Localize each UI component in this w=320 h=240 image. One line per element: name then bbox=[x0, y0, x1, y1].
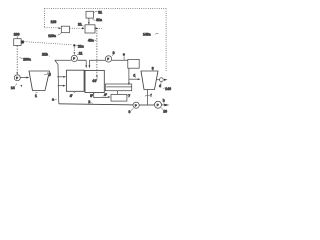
bottom pipe bbox=[59, 104, 133, 105]
svg-text:d: d bbox=[133, 73, 135, 77]
svg-text:200: 200 bbox=[14, 33, 20, 37]
slant feed wire bbox=[55, 60, 59, 104]
svg-text:7: 7 bbox=[128, 94, 130, 98]
svg-text:146: 146 bbox=[165, 87, 171, 91]
svg-text:P: P bbox=[135, 104, 137, 108]
pipe from drop2 to pump 8 bbox=[89, 59, 105, 61]
outlet arrow h bbox=[162, 104, 165, 106]
svg-text:6': 6' bbox=[104, 93, 107, 97]
branch arrow 2 into vessel 2 bbox=[58, 85, 63, 87]
svg-text:43a: 43a bbox=[88, 39, 94, 43]
main pipe mid segment bbox=[77, 59, 86, 61]
svg-text:31: 31 bbox=[98, 10, 102, 14]
pump 10 bbox=[155, 101, 162, 108]
pump 11 circle bbox=[71, 55, 77, 61]
svg-text:2: 2 bbox=[88, 100, 90, 104]
wire dashed node to pump 11 bbox=[73, 47, 75, 52]
pipe pump8 to box B1 bbox=[112, 59, 128, 61]
dotted enclosure right side 148a bbox=[165, 9, 167, 72]
svg-text:e: e bbox=[123, 52, 125, 56]
svg-text:f: f bbox=[151, 94, 152, 98]
box 200 bbox=[14, 39, 21, 46]
wire dotted into box 126a bbox=[45, 27, 59, 29]
svg-text:21b: 21b bbox=[42, 52, 48, 56]
outlet valve on vessel 3 bbox=[157, 79, 160, 81]
pipe pump9 to pump10 bbox=[139, 104, 154, 106]
svg-text:148a: 148a bbox=[143, 33, 151, 37]
svg-text:21a: 21a bbox=[78, 44, 84, 48]
svg-text:200a: 200a bbox=[23, 57, 31, 61]
wire pump14 to vessel 1 bbox=[20, 77, 26, 79]
vessel 3' right tank bbox=[85, 70, 104, 92]
node 21a bbox=[73, 44, 75, 46]
svg-text:a: a bbox=[52, 98, 54, 102]
svg-text:4': 4' bbox=[70, 94, 73, 98]
main pipe left segment bbox=[55, 59, 71, 61]
svg-text:126a: 126a bbox=[48, 34, 56, 38]
svg-text:43': 43' bbox=[92, 79, 97, 83]
svg-text:d: d bbox=[159, 84, 161, 88]
wire dashed 200 down to valve 14 bbox=[16, 46, 18, 73]
wire arrow out of box 21 bbox=[96, 27, 99, 29]
condenser bar bbox=[105, 84, 131, 91]
stub bar to box 7 bbox=[116, 91, 118, 95]
wire dotted 126a to 21 bbox=[70, 27, 82, 29]
svg-text:5': 5' bbox=[90, 94, 93, 98]
pump 9 bbox=[133, 102, 139, 108]
pump 8 circle bbox=[105, 56, 111, 62]
svg-text:31a: 31a bbox=[96, 18, 102, 22]
svg-text:10: 10 bbox=[163, 110, 167, 114]
drain mark under pump 14 bbox=[21, 85, 23, 87]
svg-text:1: 1 bbox=[35, 94, 37, 98]
wire B1 drain down bbox=[128, 68, 130, 83]
drop arrow 1 into vessel bbox=[85, 60, 87, 65]
svg-text:14: 14 bbox=[11, 86, 15, 90]
box heater bbox=[128, 59, 139, 68]
branch arrow 1 into vessel 2 bbox=[57, 76, 63, 78]
drop arrow 2 bbox=[88, 60, 90, 65]
vessel 2 left tank bbox=[66, 70, 84, 91]
svg-text:9: 9 bbox=[129, 110, 131, 114]
wire vessel3 outlet down bbox=[147, 90, 149, 105]
svg-text:P: P bbox=[107, 57, 109, 61]
svg-text:P: P bbox=[16, 76, 18, 80]
dotted enclosure left side bbox=[44, 9, 46, 28]
dotted enclosure top side bbox=[45, 8, 167, 10]
box 126a bbox=[61, 26, 69, 33]
svg-text:8: 8 bbox=[113, 51, 115, 55]
svg-text:P: P bbox=[157, 103, 159, 107]
pump 14 bbox=[14, 75, 20, 81]
svg-text:21: 21 bbox=[78, 23, 82, 27]
wire branch d to vessel 3 bbox=[129, 78, 138, 80]
box 31 bbox=[86, 11, 94, 18]
wire box31 to box21 bbox=[88, 18, 90, 22]
svg-text:126: 126 bbox=[51, 20, 57, 24]
svg-text:g: g bbox=[49, 72, 51, 76]
vessel 3 trapezoid bbox=[141, 71, 158, 90]
svg-text:P: P bbox=[73, 57, 75, 61]
box 21 bbox=[85, 25, 95, 33]
wire dotted 200 to node 21a bbox=[24, 42, 72, 45]
connector of box 200 bbox=[21, 41, 24, 44]
svg-text:11: 11 bbox=[79, 51, 83, 55]
box 7 bbox=[111, 94, 127, 101]
vessel 1 trapezoid bbox=[29, 71, 50, 91]
wire dashed 43a bbox=[96, 30, 98, 75]
wire vessel 3' to box 7 bbox=[94, 93, 108, 98]
